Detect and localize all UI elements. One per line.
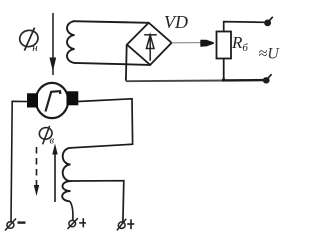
dashed arrow (residual flux, down) — [34, 147, 39, 196]
diode symbol inside bridge — [144, 34, 157, 61]
wire bridge right corner to resistor (with current arrow) — [172, 40, 214, 47]
arrow flux Phi_n (down) — [49, 13, 56, 75]
terminal Ya+ (circle with slash and plus) — [68, 218, 87, 229]
wire winding bottom to terminal Ya+ — [70, 201, 73, 220]
wire left brush to terminal Ya- — [11, 101, 28, 221]
terminal Ya- (circle with slash and minus) — [5, 219, 26, 231]
terminal top-right (AC input) — [265, 17, 273, 26]
wire bridge left corner down to minus rail — [125, 45, 128, 81]
generator G (circle) — [36, 83, 68, 118]
svg-text:≈U: ≈U — [259, 46, 281, 63]
inductor L2 excitation winding (lower part) — [62, 181, 70, 201]
inductor L1 magnetizing winding — [67, 21, 74, 63]
label Phi_v (excitation flux) — [38, 126, 54, 147]
bridge rectifier VD (diamond) — [127, 23, 172, 65]
terminal SH+ (circle with slash and plus) — [117, 219, 134, 231]
brush right (black block) — [67, 91, 79, 105]
wire L1 bottom to bridge bottom corner — [74, 63, 150, 65]
svg-text:н: н — [32, 42, 38, 54]
junction resistor/rail — [222, 78, 225, 81]
letter G inside generator — [46, 91, 61, 111]
wire L1 top to bridge top corner — [73, 21, 149, 23]
label Phi_n (flux of magnetizing winding) — [18, 28, 40, 54]
brush left (black block) — [27, 93, 38, 107]
wire resistor top to AC terminal — [224, 22, 265, 32]
terminal bottom-right (AC input) — [263, 74, 271, 83]
wire resistor bottom to rail — [223, 59, 225, 81]
wire right brush to excitation winding top — [71, 99, 133, 148]
wire winding tap to terminal SH+ — [71, 181, 124, 222]
minus rail (bottom bus to output terminal) — [126, 80, 224, 83]
svg-text:VD: VD — [164, 12, 188, 32]
solid arrow (excitation flux, up) — [52, 144, 57, 203]
inductor L2 excitation winding (upper part) — [63, 148, 71, 181]
svg-text:в: в — [50, 136, 55, 147]
resistor Rb — [217, 32, 232, 59]
